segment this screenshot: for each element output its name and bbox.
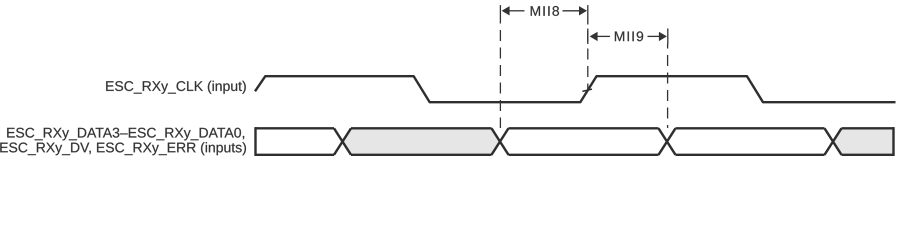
wire ESC_RXy_CLK waveform [255, 76, 896, 102]
MII9 dimension right tick [667, 29, 669, 45]
wire dashed reference line at first data transition [499, 20, 501, 129]
label ESC_RXy_CLK (input) [106, 81, 246, 94]
node X4 bus crossover [825, 128, 842, 155]
node X3 bus crossover [659, 128, 676, 155]
MII8 right arrow [579, 6, 587, 15]
wire data bus left edge [254, 127, 256, 156]
label ESC_RXy_DV, ESC_RXy_ERR (inputs) [0, 142, 246, 155]
MII9 right arrow [659, 32, 667, 41]
node D5 shaded bus segment (gray at right end) [833, 128, 894, 155]
wire dashed reference line at second data transition [667, 44, 669, 128]
node X1 bus crossover [334, 128, 351, 155]
MII9 dimension left tick [587, 29, 589, 45]
wire data bus bottom rail [256, 154, 894, 156]
MII9 left arrow [590, 32, 598, 41]
node D2 shaded bus segment (gray hexagon between first and second crossover) [343, 128, 501, 155]
wire data bus top rail [256, 127, 894, 129]
wire dashed reference line at CLK rising edge [587, 20, 589, 91]
wire data bus right edge [892, 127, 894, 156]
label MII9 [615, 31, 643, 41]
label MII8 [531, 6, 559, 16]
label ESC_RXy_DATA3-ESC_RXy_DATA0, [7, 128, 244, 141]
hash mark on CLK rising edge at timing reference point [582, 89, 592, 91]
MII8 dimension right tick [587, 5, 589, 19]
node X2 bus crossover [492, 128, 509, 155]
MII8 left arrow [502, 6, 510, 15]
MII8 dimension left tick [499, 5, 501, 19]
